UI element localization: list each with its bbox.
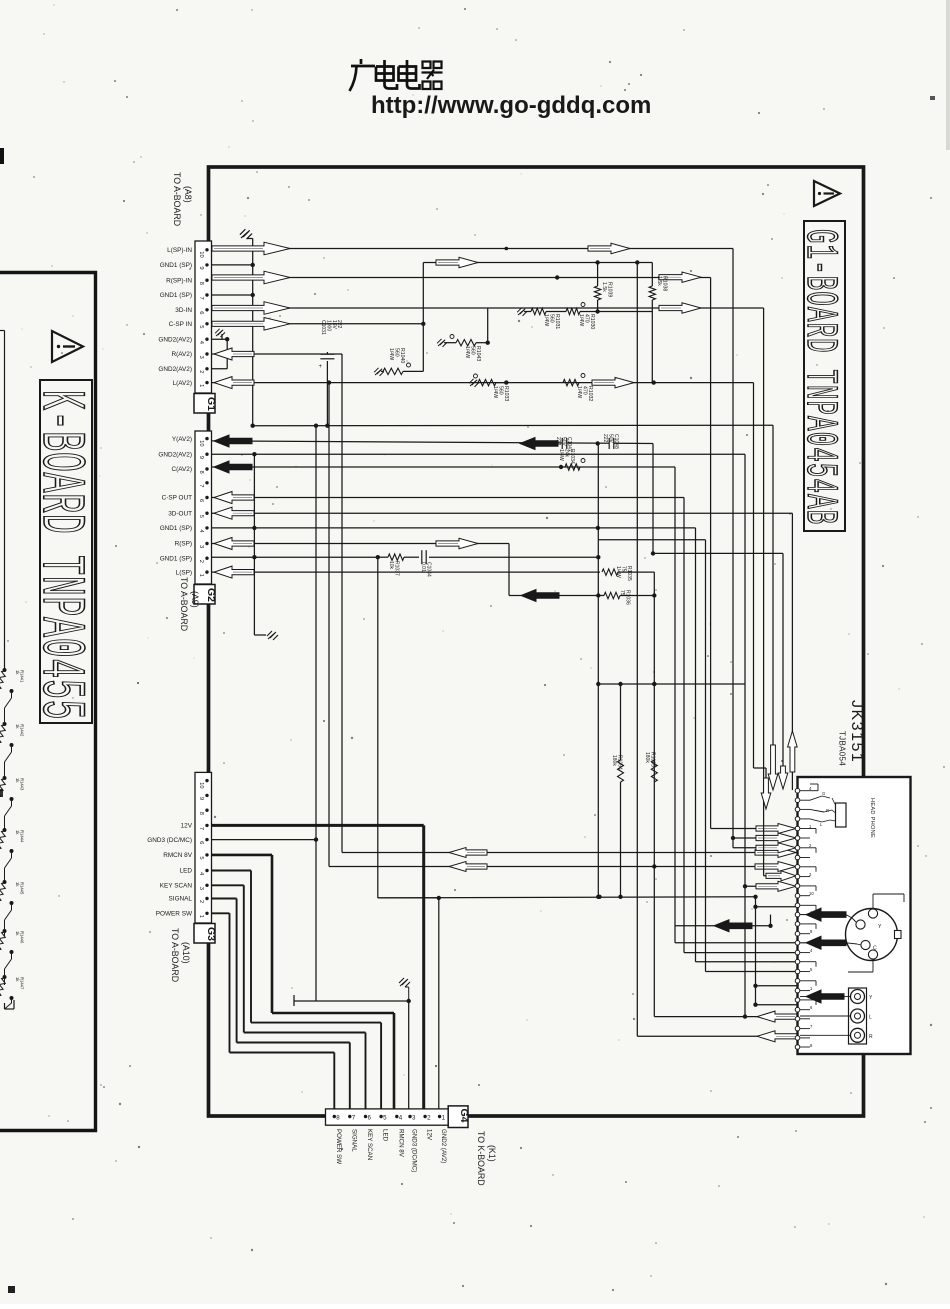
wire x654 long drop [653,572,655,1017]
svg-text:1: 1 [198,915,204,918]
arrow L(SP) at pin [214,566,254,578]
svg-text:3: 3 [412,1115,416,1122]
resistor R1043 [444,342,456,344]
svg-text:L: L [869,1015,872,1021]
arrow down x766 [761,778,771,809]
wire 3D-IN vertical drop [763,308,765,772]
svg-text:C(AV2): C(AV2) [172,466,192,473]
wire GND1 drop x695 [695,528,697,962]
G1 pin 7 GND1 (SP) [205,293,208,296]
svg-text:LED: LED [180,868,193,875]
jack pin stubs and brackets [810,828,816,830]
resistor R1035 [602,569,618,575]
G1 pin 1 L(AV2) [205,381,208,384]
svg-text:G: G [822,791,825,796]
ground symbol R1040 [374,368,384,376]
capacitor C1048 [609,438,614,450]
black arrow row y595 [521,590,559,602]
svg-text:G1-BOARD TNPA0454AB: G1-BOARD TNPA0454AB [794,229,845,525]
svg-text:G2: G2 [205,588,217,602]
svg-text:1: 1 [198,384,204,387]
G1 board title text G1-BOARD TNPA0454AB [794,229,845,525]
wire LED staircase [211,870,251,872]
svg-text:3: 3 [198,887,204,890]
G3 pin 5 RMCN 8V [205,853,208,856]
svg-text:GND3 (DC/MC): GND3 (DC/MC) [147,837,192,844]
svg-text:L(SP): L(SP) [176,569,192,576]
wire POWER SW staircase [211,912,230,914]
svg-text:G4: G4 [458,1109,470,1123]
wire L(AV2) drop x329->jack L row [328,383,330,867]
svg-text:3D-OUT: 3D-OUT [168,510,192,517]
capacitor C1031 to AV ground [326,352,328,354]
arrow R(AV2) at pin [214,348,254,360]
G1 pin 8 R(SP)-IN [205,279,208,282]
G4 pin 6 KEY SCAN [364,1115,367,1118]
arrow up x792 [788,731,798,772]
resistor R1036 [598,595,604,597]
svg-text:JK3151: JK3151 [848,700,865,763]
wire L(SP) row [211,571,600,573]
wire row to jack y942 [675,942,798,944]
G3 pin 4 LED [205,869,208,872]
arrow R(SP)-IN mid [659,272,701,282]
svg-text:R(AV2): R(AV2) [172,351,192,358]
arrow L(AV2) row mid [592,377,634,387]
wire row y684 [598,683,745,685]
wire C(AV2) row [211,466,675,468]
svg-text:12V: 12V [181,823,193,830]
wire jack row y852 (R) [342,852,798,854]
wire L(SP)-IN row [211,248,733,250]
svg-text:RMCN 8V: RMCN 8V [163,852,192,859]
arrow right row y847 [756,843,796,853]
resistor R1094 vertical [620,684,622,760]
svg-text:TJBA054: TJBA054 [838,731,847,766]
G3 pin 8 [205,809,208,812]
wire black-arrow row y925 [675,925,771,927]
svg-text:G3: G3 [205,927,217,941]
svg-text:6: 6 [198,499,204,502]
svg-text:8: 8 [336,1115,340,1122]
vertical wire x423 C-SP riser [422,263,424,372]
G2 pin 2 GND1 (SP) [205,557,208,560]
svg-text:Y(AV2): Y(AV2) [172,436,192,443]
black arrow C(AV2) at pin [214,461,252,473]
arrow left row y1016 [757,1011,797,1022]
G1 pin 2 GND2(AV2) [205,367,208,370]
G2 pin 3 R(SP) [205,542,208,545]
arrow left row y1036 [757,1031,797,1042]
wire row y539 [598,539,705,541]
wire x783 down arrow [778,766,788,789]
svg-text:L(AV2): L(AV2) [173,380,192,387]
G2 pin 10 Y(AV2) [205,437,208,440]
svg-text:C-SP OUT: C-SP OUT [162,495,193,502]
svg-text:KEY SCAN: KEY SCAN [160,883,193,890]
S-video pin C [861,940,870,949]
black arrow row y925 [714,920,752,932]
svg-text:7: 7 [352,1115,356,1122]
G4 pin 8 POWER SW [333,1115,336,1118]
G3 pin 2 SIGNAL [205,897,208,900]
svg-text:SIGNAL: SIGNAL [169,896,193,903]
wire KEY SCAN staircase [211,884,244,886]
wire row to jack y961 [696,961,798,963]
wire AV ground row y425 [253,424,773,427]
wire to RCA L [800,1015,851,1017]
wire row to jack y952 [684,952,798,954]
svg-text:R(SP): R(SP) [175,541,192,548]
wire GND2 drop x745 [744,454,746,1016]
wire L(AV2) row [211,382,754,384]
wire R(AV2) row [211,353,342,355]
svg-text:GND2(AV2): GND2(AV2) [158,366,192,373]
G1 pin 3 R(AV2) [205,352,208,355]
capacitor C1044 [421,550,423,564]
G1 board title box [804,221,845,531]
wire R(SP)-IN row [211,277,711,279]
svg-text:L(SP)-IN: L(SP)-IN [167,247,192,254]
wire drop x705 [705,540,707,972]
svg-text:RMCN 8V: RMCN 8V [397,1129,404,1158]
svg-text:4: 4 [399,1115,403,1122]
connector G4 label box [448,1106,468,1128]
svg-text:8: 8 [198,471,204,474]
wire stub row y906 [756,906,798,908]
black arrow Y(AV2) mid [520,438,558,450]
G1 board warning triangle [814,181,840,206]
wire L(AV2)/R1032 drop x753 [753,383,755,768]
G3 pin 10 [205,779,208,782]
G4 pin 2 12V [423,1115,426,1118]
svg-text:C-SP IN: C-SP IN [169,321,193,328]
wire Y(AV2) row [211,441,653,444]
svg-text:GND1 (SP): GND1 (SP) [160,262,192,269]
wire GND1(SP) pin4 row [211,527,696,529]
svg-text:2: 2 [198,900,204,903]
svg-text:7: 7 [198,484,204,487]
wire GND1 drop x377->y897 [377,557,379,898]
svg-text:5: 5 [198,856,204,859]
header site name (Chinese characters) [350,59,420,91]
capacitor C1047 [562,438,567,450]
wire GND bus right of G1 with top ground [252,239,254,426]
jack switch bar [836,803,847,827]
svg-text:R: R [826,808,829,813]
K-board outer frame [0,273,96,1131]
scan edge artifacts [0,148,4,164]
svg-text:6: 6 [198,841,204,844]
wire GND3 drop [315,426,317,1001]
wire stub row y985 [756,985,798,987]
wire C-SP arrow row y262 [423,262,652,264]
svg-text:3: 3 [198,356,204,359]
svg-text:2: 2 [427,1115,431,1122]
G2 pin 4 GND1 (SP) [205,526,208,529]
wire stub x755 ladder [755,897,757,1005]
wire 3D-IN row [211,307,764,309]
wire 3D-OUT row [211,512,792,514]
resistor R1030 [566,308,580,314]
svg-text:GND1 (SP): GND1 (SP) [160,555,192,562]
wire x773 drop + down arrow [772,425,774,745]
black arrow Y(AV2) at pin [214,435,252,447]
connector G2 label box [194,585,215,605]
resistor R1037 [378,556,388,558]
arrow R(SP) mid [436,538,478,548]
wire L(SP)-IN drop x733 [732,249,734,848]
resistor R1032 [563,379,579,385]
S-video pin top [868,909,877,918]
RCA jack R [851,1028,865,1042]
arrow 3D-OUT at pin [214,507,254,519]
resistor R1034 [565,464,580,470]
ground symbol G2 bus [267,631,278,640]
svg-text:GND2(AV2): GND2(AV2) [158,336,192,343]
ground symbol at G1 pin4 [215,329,225,337]
arrow 3D mid [659,303,701,313]
ground symbol top bus [240,229,252,239]
wire stub row y1004 [756,1004,798,1006]
wire R(SP) drop x509 [508,544,510,596]
wire x598 long riser [597,444,599,897]
svg-text:POWER SW: POWER SW [156,911,193,918]
G1 pin 6 3D-IN [205,308,208,311]
arrow C-SP mid [436,257,478,267]
svg-text:7: 7 [198,827,204,830]
arrow C-SP OUT at pin [214,492,254,504]
connector G1 label box [194,394,215,414]
RCA jack Y [851,990,865,1004]
S-video connector circle [846,909,898,961]
svg-text:5: 5 [198,325,204,328]
svg-text:2: 2 [198,370,204,373]
arrow down x773 [768,745,778,790]
svg-text:6: 6 [368,1115,372,1122]
G1 board outer frame [209,167,864,1116]
ground symbol R1043 [437,339,447,347]
svg-text:10: 10 [198,440,204,446]
arrow R(SP) at pin [214,538,254,550]
svg-text:POWER SW: POWER SW [335,1129,342,1164]
K-board inner schematic frame (partial) [0,330,5,332]
svg-text:G1: G1 [205,397,217,411]
connector G3 label box [194,924,215,944]
arrow L(SP)-IN mid [588,243,630,253]
connector G1 body [195,241,212,393]
arrow C-SP IN at pin [212,318,290,331]
resistor R1095 vertical [651,760,657,782]
wire row y1036 with arrow [637,1035,797,1037]
svg-text:SIGNAL: SIGNAL [350,1129,357,1152]
jack pin ladder [795,788,800,793]
G4 pin 7 SIGNAL [348,1115,351,1118]
wire row y1016 with arrow [654,1016,797,1018]
G2 pin 6 C-SP OUT [205,496,208,499]
headphone jack JK3151 block [798,777,911,1054]
G2 pin 8 C(AV2) [205,467,208,470]
arrow right into jack row y852 [755,848,796,858]
arrow R(SP)-IN at pin [212,271,290,284]
wire GND bus G2 with ground [253,454,255,635]
svg-text:7: 7 [198,297,204,300]
svg-text:3D-IN: 3D-IN [175,307,192,314]
black arrow to S-video Y pin [800,914,806,916]
arrow right row y875 [766,871,796,881]
S-video routing wires [872,894,874,909]
wire top rows into jack [711,828,798,830]
wire R1043 riser [487,308,489,343]
wire GND1(SP) pin9 to bus [211,264,253,266]
svg-text:1: 1 [198,574,204,577]
wire 12V row thick [211,824,424,827]
svg-text:GND2 (AV2): GND2 (AV2) [440,1129,447,1163]
resistor R1039 vertical [597,263,599,287]
wire y311 to arrow [598,311,653,313]
svg-text:10: 10 [809,891,814,896]
arrow left row y866 [449,862,487,872]
svg-text:+: + [319,364,323,370]
RCA jack L [851,1009,865,1023]
wire row y886 into jack [745,885,798,887]
svg-text:KEY SCAN: KEY SCAN [366,1129,373,1160]
arrow left row y852 [449,848,487,858]
RCA jack group box [849,988,867,1044]
wire 3D-OUT drop x792 [791,513,793,768]
G3 pin 1 POWER SW [205,912,208,915]
resistor R1038 vertical [651,263,653,287]
wire GND2(AV2) to G4 pin1 [378,897,439,899]
wire R(SP)-IN drop x710 [710,278,712,829]
arrow right into jack row y866 [755,862,796,872]
resistor R1033 with ground [469,379,479,387]
G2 pin 5 3D-OUT [205,512,208,515]
G3 pin 3 KEY SCAN [205,884,208,887]
black arrow to RCA Y [800,996,806,998]
K-board key resistor ladder [3,668,7,672]
wire R(AV2) drop x342->jack R row [341,354,343,853]
svg-text:GND2(AV2): GND2(AV2) [158,451,192,458]
G3 pin 9 [205,794,208,797]
svg-text:R(SP)-IN: R(SP)-IN [166,277,192,284]
svg-text:12V: 12V [426,1129,433,1141]
svg-text:http://www.go-gddq.com: http://www.go-gddq.com [371,92,651,119]
G4 pin 4 RMCN 8V [395,1115,398,1118]
svg-text:GND3 (DC/MC): GND3 (DC/MC) [411,1129,418,1172]
G4 pin 1 GND2 (AV2) [438,1115,441,1118]
svg-text:2: 2 [198,560,204,563]
G1 pin 9 GND1 (SP) [205,263,208,266]
arrow L(SP)-IN at pin [212,242,290,255]
K-board title box [40,380,92,723]
wire C-SP OUT drop x684 [683,498,685,953]
arrow L(AV2) at pin [214,377,254,389]
svg-text:5: 5 [383,1115,387,1122]
S-video pin Y [856,920,865,929]
resistor R1031 with ground [517,308,527,316]
K-board title text K-BOARD TNPA0455 [25,390,95,720]
wire x637 drop [636,263,638,1037]
G3 pin 7 12V [205,824,208,827]
wire 12V drop thick [422,825,425,1115]
connector G3 body [195,772,212,923]
svg-text:10: 10 [198,782,204,788]
wire GND1(SP) pin7 to bus [211,294,253,296]
wire C(AV2) drop x675 [674,467,676,943]
svg-text:LED: LED [382,1129,389,1142]
svg-text:9: 9 [198,797,204,800]
wire x753 elbow down arrow [754,767,767,769]
wire row to jack y971 [706,971,798,973]
arrow 3D-IN at pin [212,302,290,315]
wire R(SP) row [211,543,509,545]
svg-text:8: 8 [198,812,204,815]
svg-text:9: 9 [198,266,204,269]
svg-text:1: 1 [442,1115,446,1122]
G2 pin 1 L(SP) [205,570,208,573]
wire drop x783 [782,553,784,766]
svg-text:5: 5 [198,515,204,518]
black arrow to S-video C pin [800,942,806,944]
svg-text:8: 8 [198,282,204,285]
svg-text:3: 3 [198,545,204,548]
wire row y553 [653,552,783,554]
G1 pin 5 C-SP IN [205,322,208,325]
ground symbol near G4 [399,978,410,987]
wire GND1(SP) pin2 row [211,556,378,558]
wire row y595 with black arrow [509,595,598,597]
wire to RCA R [800,1034,851,1036]
svg-text:6: 6 [198,311,204,314]
wire RMCN drop thick [271,855,274,1013]
wire C-SP IN row [211,323,423,325]
wire Y(AV2) drop x653 [652,444,654,554]
S-video pin bottom [868,950,877,959]
svg-text:R: R [869,1034,873,1040]
wire RMCN row thick [211,854,272,857]
wire GND2(AV2) pin4 link [211,338,227,340]
G1 pin 4 GND2(AV2) [205,338,208,341]
wire GND2(AV2) pin9 row [211,453,745,455]
jack pin4 bracket top [810,790,818,792]
wire ground row y897 [378,897,756,898]
arrow right row y886 [756,881,796,891]
svg-text:10: 10 [198,251,204,257]
wire GND3 row [211,839,316,841]
wire row y875 into jack [764,875,798,877]
svg-text:K-BOARD TNPA0455: K-BOARD TNPA0455 [25,390,95,720]
svg-text:GND1 (SP): GND1 (SP) [160,525,192,532]
svg-text:HEAD PHONE: HEAD PHONE [869,798,875,838]
G2 pin 9 GND2(AV2) [205,453,208,456]
wire SIGNAL staircase [211,898,237,900]
K-board warning triangle [52,331,83,362]
wire C-SP OUT row [211,497,684,499]
connector G4 (TO K-BOARD K1) [326,1109,449,1125]
G4 pin 3 GND3 (DC/MC) [408,1115,411,1118]
resistor R1040 [381,370,383,372]
wire GND3 bottom row [294,1000,409,1002]
wire jack row y866 (L) [329,866,798,868]
G2 pin 7 [205,481,208,484]
svg-text:GND1 (SP): GND1 (SP) [160,292,192,299]
G3 pin 6 GND3 (DC/MC) [205,838,208,841]
svg-text:9: 9 [198,456,204,459]
G4 pin 5 LED [379,1115,382,1118]
connector G2 body [195,431,212,584]
svg-text:Y: Y [878,924,882,930]
